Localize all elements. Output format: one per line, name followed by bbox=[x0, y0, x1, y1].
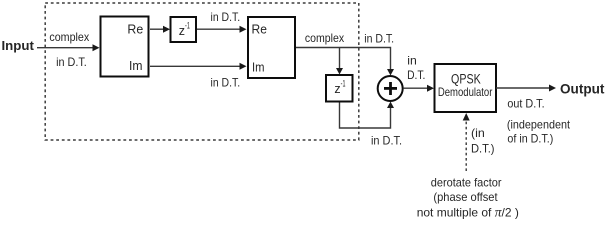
svg-text:D.T.): D.T.) bbox=[471, 141, 495, 155]
svg-text:out D.T.: out D.T. bbox=[507, 97, 544, 111]
svg-text:Re: Re bbox=[252, 22, 267, 37]
svg-text:complex: complex bbox=[305, 31, 344, 45]
svg-text:Input: Input bbox=[2, 38, 35, 53]
svg-text:in D.T.: in D.T. bbox=[211, 75, 241, 89]
wire branch down into delay z2 bbox=[339, 48, 341, 69]
svg-text:in D.T.: in D.T. bbox=[364, 32, 394, 46]
wire z1 out to combiner Re bbox=[197, 28, 240, 30]
svg-text:in D.T.: in D.T. bbox=[211, 10, 241, 24]
summing junction (+) bbox=[378, 76, 403, 101]
wire Re out to delay z1 bbox=[150, 28, 164, 30]
svg-text:in: in bbox=[407, 54, 417, 68]
wire Im out to combiner Im bbox=[150, 65, 240, 67]
svg-text:(phase offset: (phase offset bbox=[433, 190, 498, 204]
dashed derotate-factor arrow into QPSK bottom bbox=[465, 120, 467, 171]
block complex-to-Re/Im splitter bbox=[101, 17, 149, 77]
svg-text:in D.T.: in D.T. bbox=[56, 55, 87, 69]
svg-text:(in: (in bbox=[471, 126, 485, 140]
svg-text:complex: complex bbox=[49, 30, 89, 44]
svg-text:Demodulator: Demodulator bbox=[438, 85, 493, 99]
delay block z^-1 (top) bbox=[171, 17, 197, 42]
svg-text:Im: Im bbox=[252, 60, 265, 75]
svg-text:Im: Im bbox=[129, 58, 143, 73]
wire QPSK out to Output bbox=[496, 87, 549, 89]
svg-text:of in D.T.): of in D.T.) bbox=[507, 132, 553, 146]
svg-text:D.T.: D.T. bbox=[407, 68, 425, 82]
svg-text:(independent: (independent bbox=[507, 118, 571, 132]
block QPSK Demodulator bbox=[435, 64, 497, 112]
svg-text:in D.T.: in D.T. bbox=[371, 133, 402, 147]
block Re/Im-to-complex combiner bbox=[248, 17, 295, 78]
wire z2 out down, right, and up into sum bbox=[340, 103, 391, 129]
wire input arrow into complex-split block bbox=[37, 47, 93, 49]
wire sum out to QPSK demodulator bbox=[404, 87, 428, 89]
delay block z^-1 (bottom) bbox=[326, 75, 353, 102]
svg-text:derotate factor: derotate factor bbox=[431, 176, 502, 190]
svg-text:Re: Re bbox=[127, 21, 143, 36]
svg-text:not multiple of π/2 ): not multiple of π/2 ) bbox=[417, 205, 519, 220]
dashed boundary box (in D.T. domain) bbox=[45, 3, 359, 140]
svg-text:Output: Output bbox=[560, 81, 605, 96]
wire combiner out across dashed boundary to sum bbox=[296, 48, 391, 70]
